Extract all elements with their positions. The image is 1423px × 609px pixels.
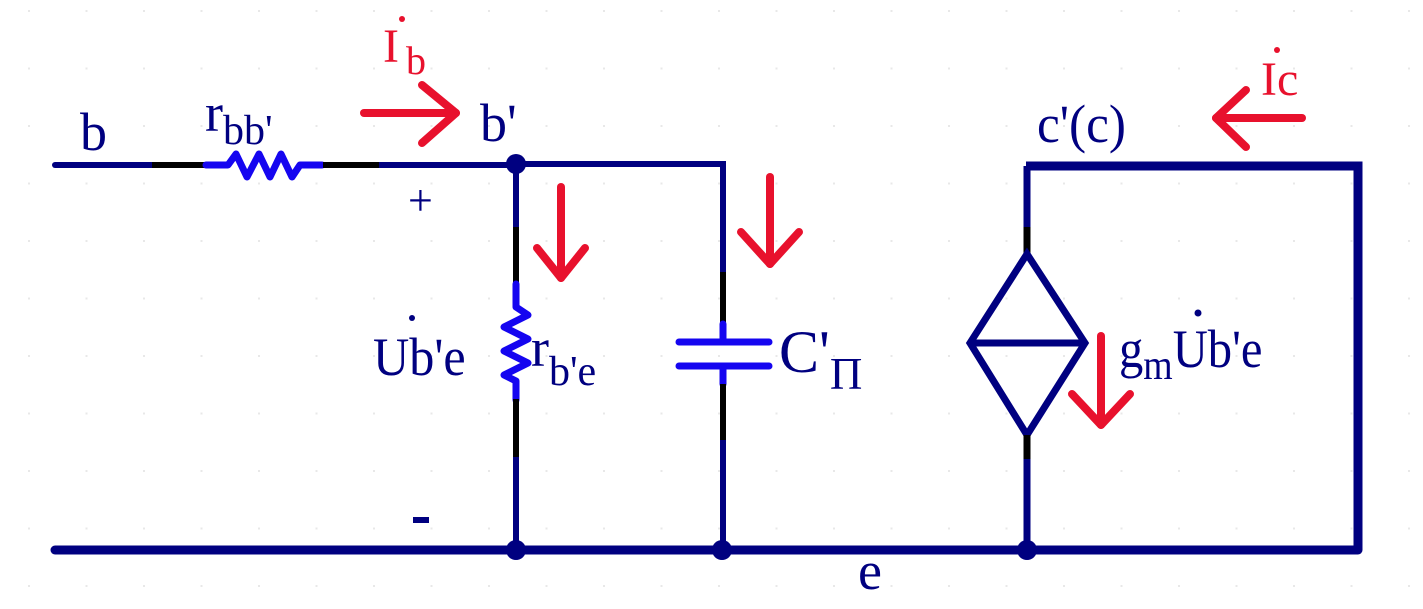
svg-text:+: + (408, 176, 433, 225)
junction dot source bottom (1017, 540, 1037, 560)
svg-text:b': b' (480, 93, 517, 153)
capacitor C'pi (679, 324, 769, 384)
label gm Ub'e with dot (1119, 320, 1262, 389)
wire top rail b' to cap corner (516, 164, 723, 272)
black pin lead bottom of rb'e (513, 399, 519, 457)
resistor rb'e (504, 284, 528, 400)
wire source to bottom rail (1024, 459, 1031, 550)
wire resistor to node b' (379, 162, 516, 168)
black pin lead bottom of source (1024, 435, 1031, 459)
svg-text:b: b (80, 102, 107, 162)
current arrow Ic (1216, 90, 1302, 147)
current arrow Ic label (1261, 47, 1298, 106)
resistor rbb' (206, 154, 322, 177)
wire top rail c' and right side down (1026, 166, 1358, 550)
node c'(c) label (1037, 95, 1126, 154)
capacitor branch: black pin lead top (720, 272, 726, 324)
svg-text:gmUb'e: gmUb'e (1119, 320, 1262, 389)
black pin lead top of rb'e (513, 227, 519, 285)
red down arrow of source (1072, 336, 1130, 425)
svg-text:e: e (858, 541, 882, 601)
svg-text:Ub'e: Ub'e (373, 328, 466, 387)
wire c' corner down to source (1024, 166, 1031, 227)
black pin lead top of source (1024, 227, 1031, 253)
current arrow Ib label (383, 16, 426, 83)
wire rb'e to bottom rail (513, 457, 519, 550)
minus sign (413, 517, 429, 523)
node b' junction dot (506, 154, 526, 174)
junction dot cap bottom (712, 540, 732, 560)
svg-text:c'(c): c'(c) (1037, 95, 1126, 154)
junction dot rb'e bottom (506, 540, 526, 560)
wire black lead left of rbb' (152, 162, 206, 168)
voltage label Ub'e with dot (373, 328, 466, 387)
current arrow Ib (364, 85, 456, 143)
red down arrow through cap (741, 177, 799, 264)
wire b to resistor (55, 162, 152, 168)
bottom rail e (55, 546, 1358, 555)
red down arrow through rb'e (537, 187, 585, 278)
branch rb'e : wire from b' down (513, 164, 519, 227)
black pin lead bottom of cap (720, 384, 726, 440)
dependent current source diamond (970, 254, 1085, 435)
wire cap to bottom rail (720, 440, 726, 550)
wire black lead right of rbb' (323, 162, 379, 168)
svg-text:Ic: Ic (1261, 53, 1298, 106)
